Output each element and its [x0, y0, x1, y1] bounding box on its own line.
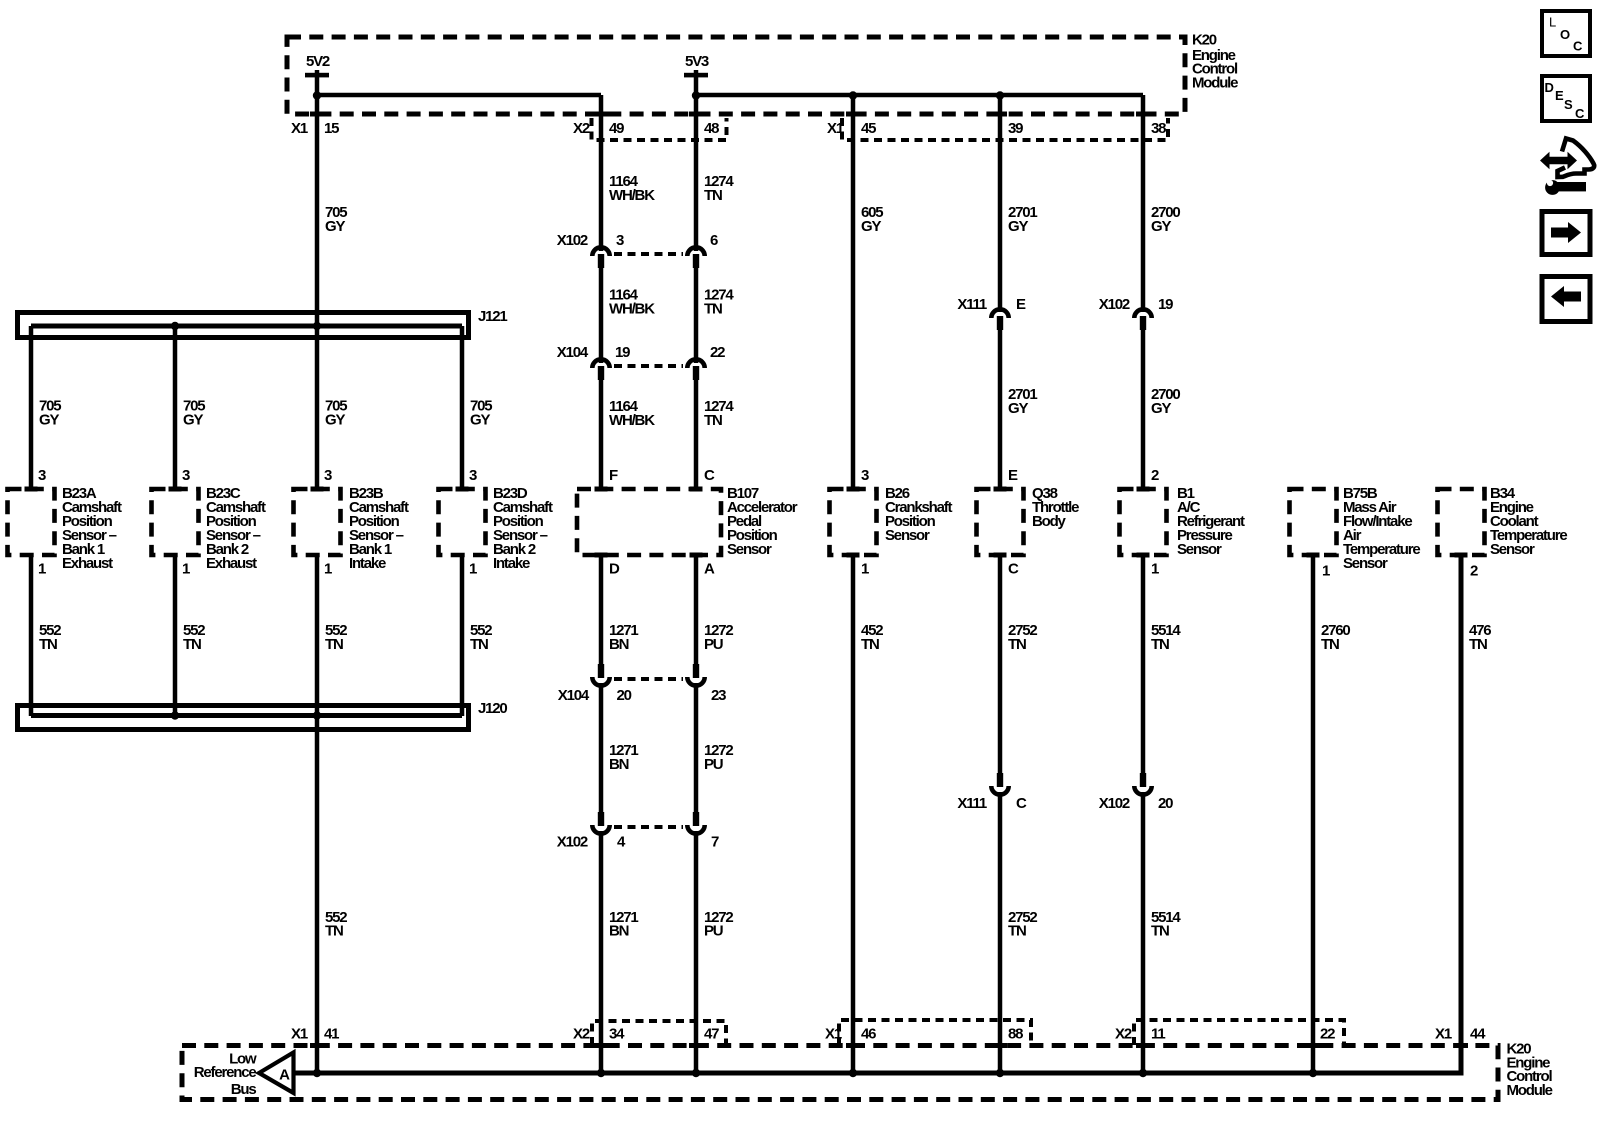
svg-text:TN: TN [183, 636, 201, 653]
junction node bus at X1-41 [313, 1069, 321, 1077]
ECM K20 border dashes at pin crossings (bottom box top edge) [310, 1043, 324, 1048]
svg-text:WH/BK: WH/BK [609, 412, 655, 429]
connector X104 pin 23 (in-line) [687, 677, 704, 686]
wire 2752 TN Q38 pin C to X111-C [998, 555, 1003, 774]
svg-text:X1: X1 [291, 120, 308, 137]
svg-text:X104: X104 [558, 687, 590, 704]
wire 552 TN B23D pin 1 to J120 [460, 555, 465, 716]
5V3 supply symbol [684, 73, 708, 78]
svg-text:49: 49 [609, 120, 624, 137]
svg-text:TN: TN [1151, 636, 1169, 653]
svg-text:GY: GY [1008, 218, 1028, 235]
svg-text:A: A [279, 1066, 290, 1083]
connector sub-box around pins 11/22 [1134, 1020, 1344, 1045]
svg-text:C: C [1575, 106, 1585, 121]
svg-text:F: F [609, 467, 618, 484]
svg-text:GY: GY [183, 412, 203, 429]
svg-text:X102: X102 [557, 834, 588, 851]
svg-text:X2: X2 [573, 1026, 590, 1043]
svg-text:3: 3 [38, 467, 46, 484]
wire 2701 GY ECM pin 39 to connector X111-E [998, 95, 1003, 312]
sensor B26 crankshaft position sensor (box) [830, 489, 877, 555]
svg-text:1: 1 [182, 561, 190, 578]
svg-text:Bus: Bus [231, 1081, 257, 1098]
connector sub-box around pins 45/39/38 [842, 118, 1168, 140]
wire 705 GY from ECM X1-15 down to splice pack J121 and sensor B23B [315, 95, 320, 487]
svg-text:3: 3 [469, 467, 477, 484]
connector X104 dashed tie line (pins 19-22) [614, 364, 683, 368]
svg-text:TN: TN [704, 187, 722, 204]
svg-text:X111: X111 [957, 795, 986, 812]
sensor B23D camshaft position sensor bank 2 intake (box) [439, 489, 486, 555]
connector X104 pin 22 (in-line) [687, 359, 704, 368]
svg-text:GY: GY [39, 412, 59, 429]
svg-text:Exhaust: Exhaust [206, 555, 257, 572]
wire 5514 TN X102-20 to ECM X2-11 [1141, 792, 1146, 1073]
svg-text:E: E [1008, 467, 1018, 484]
wire 452 TN B26 pin 1 to ECM X1-46 [851, 555, 856, 1073]
svg-text:TN: TN [1008, 636, 1026, 653]
svg-text:1: 1 [1322, 563, 1330, 580]
svg-text:3: 3 [182, 467, 190, 484]
connector X102 dashed tie line (pins 4-7) [614, 825, 683, 829]
junction node bus at X2-34 [597, 1069, 605, 1077]
svg-text:X102: X102 [1099, 795, 1130, 812]
wire 1164 WH/BK X102-3 to X104-19 [599, 264, 604, 363]
svg-text:3: 3 [861, 467, 869, 484]
svg-text:GY: GY [1008, 400, 1028, 417]
svg-text:41: 41 [324, 1026, 339, 1043]
svg-text:Module: Module [1507, 1082, 1553, 1099]
connector sub-box around pins 46/88 [839, 1020, 1031, 1045]
svg-text:X1: X1 [1435, 1026, 1452, 1043]
wire 2701 GY X111-E to throttle body Q38 pin E [998, 326, 1003, 487]
wire 2700 GY ECM pin 38 to connector X102-19 [1141, 95, 1146, 312]
wire 1272 PU B107 pin A to X104-23 [694, 557, 699, 666]
svg-text:3: 3 [616, 232, 624, 249]
svg-text:48: 48 [704, 120, 719, 137]
wire 1164 WH/BK ECM X2-49 to connector X102-3 [599, 95, 604, 251]
connector X104 pin 20 (in-line) [592, 677, 609, 686]
svg-text:15: 15 [324, 120, 339, 137]
svg-text:20: 20 [1158, 795, 1173, 812]
junction node J120 at B23B drop [313, 711, 321, 719]
sensor B1 A/C refrigerant pressure sensor (box) [1120, 489, 1167, 555]
svg-text:GY: GY [325, 412, 345, 429]
5V2 supply symbol [305, 73, 329, 78]
svg-text:46: 46 [861, 1026, 876, 1043]
svg-text:TN: TN [39, 636, 57, 653]
ECM K20 border dashes at pin crossings (top box bottom edge) [310, 112, 324, 117]
wire 552 TN B23A pin 1 to J120 [29, 555, 34, 716]
svg-text:1: 1 [469, 561, 477, 578]
splice pack J120 [18, 706, 469, 730]
svg-text:C: C [1016, 795, 1027, 812]
svg-text:Exhaust: Exhaust [62, 555, 113, 572]
wire 705 GY J121 to B23A pin 3 [29, 326, 34, 487]
wire 5514 TN B1 pin 1 to X102-20 [1141, 555, 1146, 774]
svg-text:39: 39 [1008, 120, 1023, 137]
connector sub-box around pins 49/48 [592, 118, 727, 140]
wire 705 GY J121 to B23D pin 3 [460, 326, 465, 487]
svg-text:6: 6 [710, 232, 718, 249]
svg-text:PU: PU [704, 756, 723, 773]
wire 2752 TN X111-C to ECM pin 88 [998, 792, 1003, 1073]
sensor B23B camshaft position sensor bank 1 intake (box) [294, 489, 341, 555]
connector X102 pin 6 (in-line) [687, 247, 704, 256]
low reference bus marker triangle A [259, 1053, 294, 1094]
svg-text:X102: X102 [557, 232, 588, 249]
svg-text:C: C [704, 467, 715, 484]
wire 705 GY J121 to B23C pin 3 [173, 326, 178, 487]
svg-text:PU: PU [704, 923, 723, 940]
svg-text:Intake: Intake [349, 555, 386, 572]
svg-text:J120: J120 [478, 700, 507, 717]
svg-text:TN: TN [1151, 923, 1169, 940]
connector X104 pin 19 (in-line) [592, 359, 609, 368]
sensor B34 engine coolant temperature sensor (box) [1438, 489, 1485, 555]
junction node 5V3 rail at pin 39 wire [996, 91, 1004, 99]
svg-text:C: C [1573, 39, 1583, 54]
connector X102 pin 20 (in-line) [1134, 786, 1151, 795]
svg-text:1: 1 [1151, 561, 1159, 578]
svg-text:TN: TN [1321, 636, 1339, 653]
connector X102 pin 7 (in-line) [687, 825, 704, 834]
connector X102 pin 19 (in-line) [1134, 309, 1151, 318]
splice pack J121 [18, 313, 469, 338]
svg-text:1: 1 [861, 561, 869, 578]
svg-text:1: 1 [324, 561, 332, 578]
svg-text:47: 47 [704, 1026, 719, 1043]
svg-text:22: 22 [710, 344, 725, 361]
connector X111 pin C (in-line) [991, 786, 1008, 795]
svg-text:19: 19 [615, 344, 630, 361]
junction node J121 at B23C drop [171, 322, 179, 330]
svg-text:88: 88 [1008, 1026, 1023, 1043]
sensor B23C camshaft position sensor bank 2 exhaust (box) [152, 489, 199, 555]
svg-text:TN: TN [704, 301, 722, 318]
svg-text:X111: X111 [957, 296, 986, 313]
wire 552 TN B23C pin 1 to J120 [173, 555, 178, 716]
svg-text:GY: GY [470, 412, 490, 429]
svg-text:38: 38 [1151, 120, 1166, 137]
svg-text:20: 20 [617, 687, 632, 704]
connector X102 pin 3 (in-line) [592, 247, 609, 256]
svg-text:11: 11 [1151, 1026, 1165, 1043]
wire 1272 PU X104-23 to X102-7 [694, 683, 699, 813]
wire 5V2 feed: vertical from 5V2 down to ECM pin X1-15 and horizontal to pin X2-49 [315, 70, 320, 95]
wire 1271 BN X104-20 to X102-4 [599, 683, 604, 813]
wire 1274 TN ECM pin 48 to connector X102-6 [694, 95, 699, 251]
svg-text:X2: X2 [1115, 1026, 1132, 1043]
svg-text:22: 22 [1320, 1026, 1335, 1043]
sidebar icon DESC button [1542, 76, 1590, 121]
wire 1272 PU X102-7 to ECM X2-47 [694, 831, 699, 1073]
svg-text:Sensor: Sensor [885, 527, 930, 544]
junction node bus at X2-11 [1139, 1069, 1147, 1077]
junction node at 5V2 feed [313, 91, 321, 99]
svg-text:34: 34 [609, 1026, 625, 1043]
svg-text:Sensor: Sensor [1343, 555, 1388, 572]
svg-text:O: O [1560, 27, 1570, 42]
svg-text:Sensor: Sensor [1177, 541, 1222, 558]
svg-text:TN: TN [704, 412, 722, 429]
svg-text:K20: K20 [1192, 32, 1217, 49]
svg-text:4: 4 [617, 834, 626, 851]
svg-text:19: 19 [1158, 296, 1173, 313]
svg-text:TN: TN [1008, 923, 1026, 940]
svg-text:X104: X104 [557, 344, 589, 361]
sensor B23A camshaft position sensor bank 1 exhaust (box) [8, 489, 55, 555]
svg-text:45: 45 [861, 120, 876, 137]
svg-text:Module: Module [1192, 75, 1238, 92]
connector X111 pin E (in-line) [991, 309, 1008, 318]
ECM K20 module box (top) [287, 37, 1185, 114]
svg-text:Sensor: Sensor [727, 541, 772, 558]
wire 1271 BN B107 pin D to X104-20 [599, 557, 604, 666]
svg-text:Intake: Intake [493, 555, 530, 572]
junction node 5V3 rail at X1-45 wire [849, 91, 857, 99]
wire 2700 GY X102-19 to A/C pressure sensor B1 pin 2 [1141, 326, 1146, 487]
svg-text:GY: GY [1151, 218, 1171, 235]
svg-text:TN: TN [1469, 636, 1487, 653]
svg-text:3: 3 [324, 467, 332, 484]
svg-text:23: 23 [711, 687, 726, 704]
sidebar icon wiring tool (double arrow, outline, wrench) [1540, 152, 1577, 169]
svg-text:GY: GY [325, 218, 345, 235]
connector X104 dashed tie line (pins 20-23) [614, 677, 683, 681]
svg-text:5V3: 5V3 [685, 53, 709, 70]
ECM K20 module box (bottom) [182, 1046, 1498, 1100]
svg-text:E: E [1555, 88, 1564, 103]
junction node 5V3 rail at X2-48 wire [692, 91, 700, 99]
svg-text:TN: TN [470, 636, 488, 653]
svg-text:A: A [704, 561, 715, 578]
svg-text:S: S [1564, 97, 1573, 112]
wire 2760 TN B75B pin 1 to ECM pin 22 [1311, 555, 1316, 1073]
svg-text:C: C [1008, 561, 1019, 578]
svg-text:X1: X1 [291, 1026, 308, 1043]
svg-text:1: 1 [38, 561, 46, 578]
sidebar icon forward arrow button [1542, 212, 1590, 255]
sidebar icon back arrow button [1542, 277, 1590, 322]
wire 1271 BN X102-4 to ECM X2-34 [599, 831, 604, 1073]
svg-text:TN: TN [325, 636, 343, 653]
svg-text:TN: TN [861, 636, 879, 653]
svg-text:2: 2 [1470, 563, 1478, 580]
sidebar icon LOC button [1542, 11, 1590, 56]
wire 1274 TN X102-6 to X104-22 [694, 264, 699, 363]
wire 552 TN B23B pin 1 through J120 to ECM X1-41 [315, 555, 320, 1073]
wire 1274 TN X104-22 to B107 pin C [694, 376, 699, 487]
connector X102 pin 4 (in-line) [592, 825, 609, 834]
sensor B107 accelerator pedal position sensor (box) [577, 489, 721, 555]
wire 5V3 feed: vertical from 5V3, horizontal rail to pins 45/39/38 [694, 70, 699, 95]
svg-text:X102: X102 [1099, 296, 1130, 313]
junction node J121 at B23B drop [313, 322, 321, 330]
junction node bus at X2-47 [692, 1069, 700, 1077]
svg-text:L: L [1549, 15, 1556, 30]
svg-text:Reference: Reference [194, 1064, 257, 1081]
svg-text:D: D [1545, 80, 1554, 95]
wire 476 TN B34 pin 2 to ECM X1-44 and low reference bus [294, 555, 1462, 1073]
junction node bus at pin 88 [996, 1069, 1004, 1077]
svg-text:WH/BK: WH/BK [609, 301, 655, 318]
svg-text:X2: X2 [573, 120, 590, 137]
svg-text:GY: GY [1151, 400, 1171, 417]
svg-text:BN: BN [609, 756, 629, 773]
wire 605 GY ECM X1-45 to B26 pin 3 [851, 95, 856, 487]
svg-text:PU: PU [704, 636, 723, 653]
svg-text:5V2: 5V2 [306, 53, 330, 70]
svg-text:E: E [1016, 296, 1026, 313]
svg-text:D: D [609, 561, 620, 578]
svg-text:WH/BK: WH/BK [609, 187, 655, 204]
svg-text:J121: J121 [478, 308, 507, 325]
connector sub-box around pins 34/47 [592, 1021, 726, 1045]
svg-text:BN: BN [609, 923, 629, 940]
junction node bus at pin 22 [1309, 1069, 1317, 1077]
connector X102 dashed tie line (pins 3-6) [614, 252, 683, 256]
svg-text:BN: BN [609, 636, 629, 653]
svg-text:44: 44 [1470, 1026, 1486, 1043]
svg-text:Body: Body [1032, 513, 1067, 530]
svg-text:TN: TN [325, 923, 343, 940]
svg-text:Sensor: Sensor [1490, 541, 1535, 558]
wire 1164 WH/BK X104-19 to B107 pin F [599, 376, 604, 487]
junction node J120 at B23C drop [171, 711, 179, 719]
svg-text:GY: GY [861, 218, 881, 235]
throttle body Q38 (box) [977, 489, 1024, 555]
svg-text:7: 7 [711, 834, 719, 851]
junction node bus at X1-46 [849, 1069, 857, 1077]
sensor B75B mass air flow / intake air temperature sensor (box) [1290, 489, 1337, 555]
svg-text:2: 2 [1151, 467, 1159, 484]
